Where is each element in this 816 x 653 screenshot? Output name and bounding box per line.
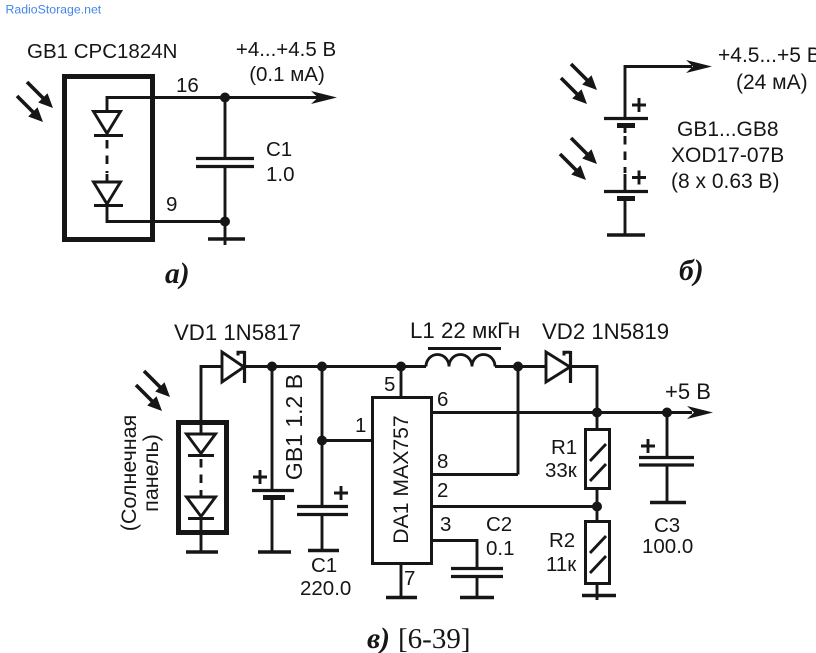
svg-text:0.1: 0.1 [486,537,515,560]
svg-text:C3: C3 [654,514,680,537]
svg-text:R2: R2 [549,529,575,552]
svg-text:+4...+4.5 В: +4...+4.5 В [236,38,336,61]
svg-text:7: 7 [404,567,415,590]
svg-text:R1: R1 [551,436,577,459]
svg-text:5: 5 [384,373,395,396]
svg-text:RadioStorage.net: RadioStorage.net [6,3,102,17]
svg-text:+5 В: +5 В [665,379,711,404]
svg-text:11к: 11к [546,553,577,576]
svg-text:в): в) [367,623,390,653]
svg-text:C1: C1 [311,554,337,577]
svg-text:VD2 1N5819: VD2 1N5819 [542,319,669,344]
svg-text:L1 22 мкГн: L1 22 мкГн [410,318,520,343]
svg-text:6: 6 [437,388,448,411]
svg-text:C1: C1 [266,138,292,161]
svg-text:а): а) [165,258,190,290]
svg-text:DA1 MAX757: DA1 MAX757 [390,415,413,543]
svg-text:(Солнечная: (Солнечная [117,415,141,532]
svg-text:100.0: 100.0 [642,535,693,558]
svg-text:(0.1 мА): (0.1 мА) [249,63,325,86]
svg-text:33к: 33к [545,459,578,482]
svg-text:3: 3 [440,513,451,536]
svg-text:1: 1 [355,414,366,437]
svg-text:220.0: 220.0 [300,577,351,600]
svg-text:1.0: 1.0 [266,163,295,186]
svg-text:+4.5...+5 В: +4.5...+5 В [718,44,816,67]
svg-text:б): б) [679,255,704,287]
svg-text:панель): панель) [139,434,163,512]
svg-text:GB1...GB8: GB1...GB8 [677,118,779,141]
svg-text:8: 8 [437,450,448,473]
svg-text:2: 2 [437,479,448,502]
svg-text:GB1 1.2 В: GB1 1.2 В [281,374,307,480]
svg-text:16: 16 [176,74,199,97]
svg-text:(24 мА): (24 мА) [736,71,808,94]
svg-text:(8 x 0.63 В): (8 x 0.63 В) [671,170,780,193]
svg-text:GB1 CPC1824N: GB1 CPC1824N [27,40,177,63]
svg-text:XOD17-07B: XOD17-07B [671,144,784,167]
svg-text:VD1 1N5817: VD1 1N5817 [174,320,301,345]
svg-text:9: 9 [166,193,177,216]
svg-text:C2: C2 [486,513,512,536]
svg-text:[6-39]: [6-39] [398,623,470,653]
